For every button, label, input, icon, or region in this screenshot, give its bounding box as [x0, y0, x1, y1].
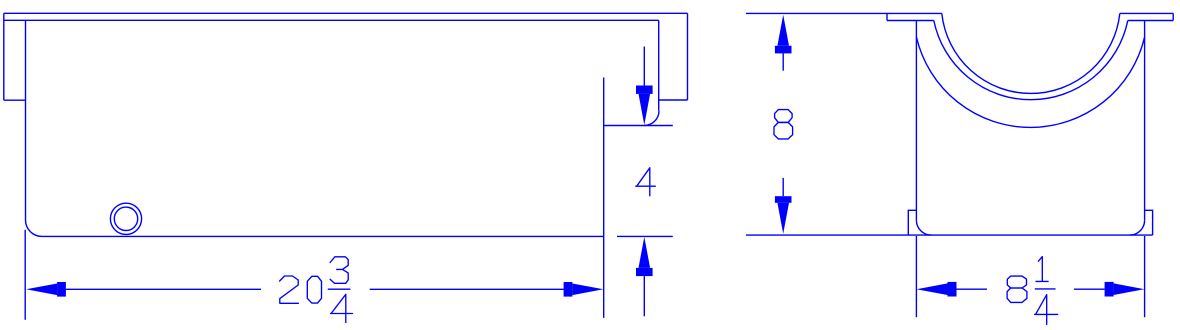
dim text 8 upper lobe [775, 110, 793, 123]
side view right step edge / extension line [603, 78, 605, 318]
drain plug outer circle [110, 203, 141, 234]
dim 8-1/4 line left segment [957, 288, 988, 290]
dim 8-1/4 line right segment [1074, 288, 1105, 290]
dim 4 up arrowhead [639, 237, 651, 268]
dim text 8-1/4 fraction digit 1 [1036, 257, 1048, 282]
end view right wall [1144, 21, 1146, 221]
dim text 8-1/4 fraction bar [1035, 288, 1055, 290]
dim text 8-1/4 fraction digit 4 [1035, 295, 1058, 325]
dim text 8-1/4 digit 8 lower lobe [1007, 288, 1027, 302]
end view flange top right [1120, 12, 1173, 14]
side view left flange outer edge [3, 13, 5, 100]
end view interior large arc [916, 37, 1144, 127]
side view top flange inner line [4, 19, 659, 21]
end view arch outer arc [942, 13, 1120, 93]
side view right inner wall vertical [658, 20, 660, 110]
side view right wall curve [644, 111, 659, 126]
end view bottom-left corner arc [916, 220, 931, 235]
side view pan bottom line [42, 235, 604, 237]
dim 8 up arrowhead [777, 15, 789, 46]
dim text 4 [636, 168, 656, 196]
dim text 8 lower lobe [774, 122, 793, 138]
end view flange left edge [886, 13, 888, 20]
side view bottom extension segment right [617, 235, 673, 237]
end view top extension + flange top left [746, 12, 942, 14]
dim 20-3/4 left extension line [24, 230, 26, 320]
end view bottom line + left extension [746, 234, 1153, 236]
dim 20-3/4 left arrowhead [26, 284, 57, 296]
end view arch middle arc [934, 21, 1128, 100]
end view bottom-right corner arc [1130, 220, 1145, 235]
dim text 20-3/4 fraction digit 4 [331, 294, 353, 322]
drain plug inner circle [114, 207, 137, 230]
dim text 8-1/4 digit 8 upper lobe [1007, 276, 1026, 288]
end view flange bottom left [887, 20, 934, 22]
dim text 20-3/4 digit 2 [280, 276, 299, 303]
dim 20-3/4 right arrowhead [572, 284, 603, 296]
end view left foot [908, 210, 916, 235]
dim 8-1/4 right arrowhead [1114, 283, 1145, 295]
side view left flange bottom [4, 99, 26, 101]
end view flange bottom right [1128, 20, 1173, 22]
side view bottom-left corner arc [26, 220, 42, 236]
side view shallow floor line + extension [604, 125, 673, 127]
dim 20-3/4 line left segment [66, 288, 261, 290]
end view left wall [915, 21, 917, 221]
side view top flange outer line [4, 12, 688, 14]
end view right foot [1145, 210, 1153, 235]
dim 8-1/4 left extension line [915, 236, 917, 317]
dim 4 down arrowhead [639, 94, 651, 125]
side view right flange outer edge [687, 13, 689, 100]
dim text 20-3/4 digit 0 [307, 276, 321, 303]
dim 4 upper arrow leader [643, 47, 645, 86]
dim 8 line upper segment [782, 53, 784, 70]
dim 20-3/4 line right segment [370, 288, 564, 290]
dim 8 down arrowhead [777, 203, 789, 234]
dim 4 lower arrow leader [643, 276, 645, 316]
dim 8-1/4 left arrowhead [917, 283, 948, 295]
dim text 20-3/4 fraction bar [328, 288, 350, 290]
dim 8 line lower segment [782, 178, 784, 196]
side view left wall [25, 20, 27, 220]
side view right flange bottom [659, 99, 688, 101]
end view flange right edge [1172, 13, 1174, 20]
dim 8-1/4 right extension line [1144, 236, 1146, 317]
dim text 20-3/4 fraction digit 3 [330, 257, 348, 284]
